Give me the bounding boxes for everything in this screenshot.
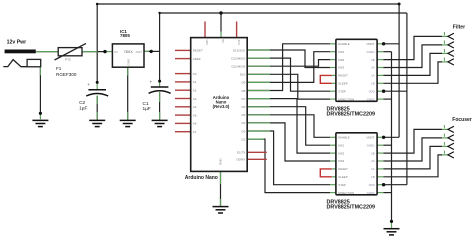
svg-text:3V3: 3V3 <box>237 40 241 46</box>
svg-text:D8: D8 <box>241 89 245 93</box>
svg-text:AREF: AREF <box>193 57 201 61</box>
svg-text:RESET: RESET <box>193 49 203 53</box>
svg-text:2B: 2B <box>371 58 375 62</box>
svg-text:GND2: GND2 <box>367 191 375 195</box>
svg-text:1B: 1B <box>371 175 375 179</box>
svg-text:PTC: PTC <box>65 57 72 61</box>
svg-text:A2: A2 <box>193 89 197 93</box>
svg-text:DRV8825/TMC2209: DRV8825/TMC2209 <box>327 112 375 118</box>
svg-text:GND2: GND2 <box>367 97 375 101</box>
svg-text:DIRECTION: DIRECTION <box>338 191 354 195</box>
svg-text:VDD: VDD <box>369 89 375 93</box>
svg-text:VMOT: VMOT <box>366 136 375 140</box>
svg-text:SLEEP: SLEEP <box>338 82 347 86</box>
svg-text:SLEEP: SLEEP <box>338 175 347 179</box>
svg-text:ENABLE: ENABLE <box>338 42 349 46</box>
svg-text:A4: A4 <box>193 105 197 109</box>
svg-text:C2: C2 <box>79 100 85 106</box>
svg-text:5V: 5V <box>221 40 225 44</box>
svg-text:2A: 2A <box>371 159 375 163</box>
svg-text:DIRECTION: DIRECTION <box>338 97 354 101</box>
svg-text:OUT: OUT <box>136 50 143 54</box>
svg-text:D12/MISO: D12/MISO <box>231 56 246 60</box>
svg-text:1µF: 1µF <box>143 106 151 112</box>
svg-text:1B: 1B <box>371 82 375 86</box>
svg-text:A0: A0 <box>193 72 197 76</box>
svg-text:D5: D5 <box>241 113 245 117</box>
svg-text:D3: D3 <box>241 129 245 133</box>
svg-text:D4: D4 <box>241 121 245 125</box>
svg-text:RGEF300: RGEF300 <box>56 72 77 77</box>
svg-text:A7: A7 <box>193 130 197 134</box>
svg-text:RESET: RESET <box>338 74 348 78</box>
svg-text:MS2: MS2 <box>338 151 344 155</box>
svg-text:VIN: VIN <box>205 40 209 45</box>
svg-text:MS3: MS3 <box>338 159 344 163</box>
svg-text:D9: D9 <box>241 81 245 85</box>
svg-text:MS1: MS1 <box>338 143 344 147</box>
svg-text:GND1: GND1 <box>367 143 375 147</box>
svg-text:A6: A6 <box>193 122 197 126</box>
svg-text:ENABLE: ENABLE <box>338 136 349 140</box>
svg-text:VMOT: VMOT <box>366 42 375 46</box>
svg-text:A3: A3 <box>193 97 197 101</box>
svg-text:A1: A1 <box>193 80 197 84</box>
svg-text:Filter: Filter <box>453 25 465 31</box>
svg-text:78XX: 78XX <box>124 50 133 54</box>
svg-text:D10: D10 <box>240 73 246 77</box>
svg-text:7805: 7805 <box>120 33 130 38</box>
svg-text:C1: C1 <box>143 101 149 107</box>
svg-text:D0/RX: D0/RX <box>236 158 245 162</box>
svg-text:MS3: MS3 <box>338 66 344 70</box>
svg-text:MS2: MS2 <box>338 58 344 62</box>
svg-text:STEP: STEP <box>338 89 346 93</box>
svg-text:IN: IN <box>115 50 118 54</box>
svg-text:12v Pwr: 12v Pwr <box>7 39 27 45</box>
svg-text:2A: 2A <box>371 66 375 70</box>
svg-text:1µF: 1µF <box>79 105 87 111</box>
svg-text:Focuser: Focuser <box>452 117 472 123</box>
svg-text:2B: 2B <box>371 151 375 155</box>
svg-text:D13/SCK: D13/SCK <box>233 48 246 52</box>
svg-text:GND1: GND1 <box>367 50 375 54</box>
svg-text:MS1: MS1 <box>338 50 344 54</box>
svg-text:GND: GND <box>219 158 223 166</box>
svg-text:STEP: STEP <box>338 183 346 187</box>
svg-text:D7: D7 <box>241 97 245 101</box>
svg-text:F1: F1 <box>56 66 62 71</box>
svg-text:GND: GND <box>126 58 130 66</box>
svg-text:1A: 1A <box>371 167 375 171</box>
svg-text:RESET: RESET <box>338 167 348 171</box>
svg-text:DRV8825/TMC2209: DRV8825/TMC2209 <box>327 205 375 211</box>
svg-text:A5: A5 <box>193 113 197 117</box>
svg-text:(Rev3.0): (Rev3.0) <box>213 104 230 109</box>
svg-text:D1/TX: D1/TX <box>237 151 246 155</box>
svg-text:D2: D2 <box>241 137 245 141</box>
svg-text:D11/MOSI: D11/MOSI <box>232 65 246 69</box>
svg-text:D6: D6 <box>241 105 245 109</box>
svg-text:Arduino Nano: Arduino Nano <box>185 175 218 181</box>
svg-text:1A: 1A <box>371 74 375 78</box>
svg-text:VDD: VDD <box>369 183 375 187</box>
